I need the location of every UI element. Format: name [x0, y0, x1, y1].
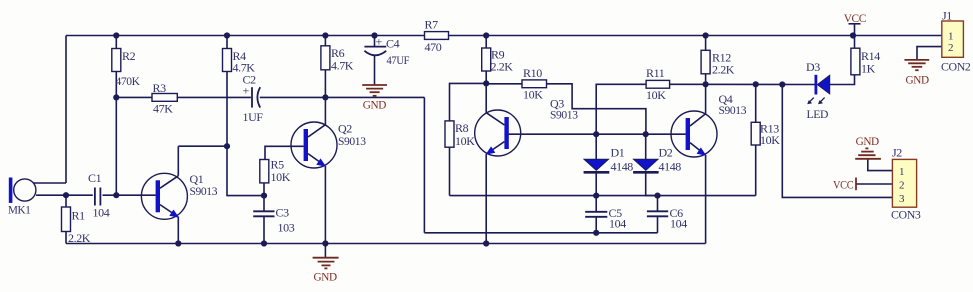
svg-text:J2: J2 [892, 146, 902, 160]
capacitor C6 [647, 211, 668, 216]
wire mic output row [36, 194, 93, 196]
svg-text:VCC: VCC [833, 178, 854, 192]
wire C4 top stub [374, 36, 376, 47]
capacitor C1 [95, 188, 101, 206]
svg-text:470: 470 [425, 40, 442, 54]
wire J2 pin2 to VCC bar [856, 183, 892, 185]
resistor R10 [522, 80, 547, 88]
wire jog R4 node down to R5/C3 node [227, 146, 264, 195]
wire J2 pin1 to ground [868, 159, 893, 171]
wire base row Q3 to Q4 [508, 133, 685, 135]
svg-text:10K: 10K [523, 88, 543, 102]
wire Q2 emitter stub [324, 166, 326, 244]
svg-text:C4: C4 [386, 37, 400, 51]
svg-text:GND: GND [314, 270, 338, 284]
resistor R14 [851, 48, 860, 75]
svg-text:3: 3 [899, 193, 905, 205]
transistor Q3 S9013 (mirrored) [475, 110, 521, 156]
ground symbol under C4 [362, 85, 387, 96]
wire Q1 collector stub [177, 146, 179, 176]
wire corner column down [423, 97, 425, 232]
svg-text:2.2K: 2.2K [491, 60, 514, 74]
svg-text:2.2K: 2.2K [68, 231, 91, 245]
diode D2 4148 [633, 159, 659, 172]
resistor R8 [445, 121, 454, 147]
wire bottom ground rail [66, 243, 706, 245]
capacitor C2 [252, 87, 260, 107]
svg-text:10K: 10K [646, 88, 666, 102]
svg-text:MK1: MK1 [8, 203, 31, 217]
wire R2 column [115, 36, 117, 49]
svg-text:2.2K: 2.2K [712, 63, 735, 77]
wire D2 cathode jog [646, 172, 658, 195]
resistor R1 [62, 207, 71, 232]
ground symbol at J1 [904, 60, 929, 70]
ground symbol at J2 (inverted) [855, 148, 881, 158]
svg-text:R11: R11 [646, 66, 665, 80]
svg-text:D1: D1 [611, 146, 625, 160]
svg-text:CON3: CON3 [891, 208, 921, 222]
wire D2 anode stub [645, 134, 647, 159]
diode D1 4148 [584, 159, 610, 172]
svg-text:47UF: 47UF [387, 53, 410, 67]
svg-text:1UF: 1UF [243, 110, 264, 124]
resistor R4 [223, 49, 232, 72]
svg-text:1: 1 [899, 166, 905, 178]
wire mic top lead [33, 182, 66, 184]
resistor R9 [482, 48, 491, 71]
svg-text:S9013: S9013 [550, 108, 578, 122]
transistor Q1 S9013 [141, 173, 187, 219]
wire R6 column [324, 36, 326, 46]
wire R9 column [485, 36, 487, 49]
capacitor C3 [253, 211, 274, 216]
svg-text:S9013: S9013 [190, 184, 218, 198]
svg-text:R2: R2 [122, 49, 136, 63]
wire C2 output to corner column [260, 96, 425, 98]
wire R13 leads [755, 84, 757, 122]
svg-text:4148: 4148 [611, 160, 634, 174]
svg-text:R3: R3 [153, 81, 167, 95]
wire J2 pin3 riser [782, 85, 892, 198]
wire C3 stubs [263, 196, 265, 212]
svg-text:103: 103 [278, 221, 295, 235]
transistor Q2 S9013 [291, 122, 337, 168]
svg-text:4148: 4148 [659, 160, 682, 174]
connector J1 CON2 [942, 21, 964, 57]
svg-text:10K: 10K [271, 170, 291, 184]
svg-text:104: 104 [609, 217, 626, 231]
svg-text:R10: R10 [523, 66, 542, 80]
wire R5 bottom lead [263, 183, 265, 196]
svg-text:C1: C1 [88, 171, 102, 185]
wire Q1 emitter stub [177, 217, 179, 244]
svg-text:R7: R7 [425, 18, 439, 32]
svg-text:4.7K: 4.7K [331, 59, 354, 73]
VCC bar at J2 pin2 [855, 178, 857, 191]
ground symbol under Q2 [313, 258, 339, 269]
svg-text:470K: 470K [116, 74, 141, 88]
svg-text:GND: GND [906, 73, 930, 87]
svg-text:S9013: S9013 [338, 134, 366, 148]
wire C1 to Q1 base [103, 194, 156, 196]
svg-text:S9013: S9013 [719, 103, 747, 117]
svg-text:R1: R1 [72, 209, 86, 223]
svg-text:104: 104 [670, 217, 687, 231]
svg-text:1: 1 [948, 31, 954, 43]
capacitor C4 [364, 47, 386, 56]
resistor R6 [321, 46, 330, 70]
resistor R12 [701, 50, 710, 74]
resistor R3 [152, 94, 177, 102]
wire C6 stubs [657, 196, 659, 212]
svg-text:+: + [243, 84, 250, 98]
svg-text:1K: 1K [861, 62, 876, 76]
svg-text:104: 104 [93, 206, 110, 220]
wire Q3 collector stub [485, 83, 487, 112]
wire R8 bottom lead [449, 147, 451, 195]
microphone MK1 [9, 178, 36, 203]
wire Q4 emitter stub [705, 155, 707, 244]
svg-text:GND: GND [363, 98, 387, 112]
connector J2 CON3 [892, 159, 916, 207]
wire R12 column [705, 36, 707, 51]
svg-text:10K: 10K [760, 133, 780, 147]
wire R1 bottom lead [65, 232, 67, 244]
wire Q4 collector stub [705, 84, 707, 113]
wire top VCC rail left segment [66, 35, 425, 37]
wire C5 C6 bottom bus [424, 232, 657, 234]
transistor Q4 S9013 [671, 111, 717, 157]
wire D1 anode stub [595, 134, 597, 159]
resistor R11 [646, 80, 670, 88]
wire left vertical from rail to mic [65, 36, 67, 184]
svg-text:D3: D3 [806, 60, 820, 74]
wire R1 top lead [65, 195, 67, 207]
wire R5 top corner to Q2 base [265, 146, 304, 159]
wire top VCC rail right segment [449, 35, 942, 37]
svg-text:+: + [376, 35, 383, 49]
wire R11 right lead row to LED [670, 83, 815, 85]
svg-text:GND: GND [856, 134, 880, 148]
wire R4 column [226, 36, 228, 49]
wire LED anode side to R14 [830, 75, 855, 85]
wire C5 stubs [595, 196, 597, 212]
wire Q2 collector stub [324, 97, 326, 124]
wire R14 top lead [854, 36, 856, 49]
svg-text:D2: D2 [659, 146, 673, 160]
svg-text:47K: 47K [153, 102, 173, 116]
wire R8 top lead [450, 83, 487, 121]
wire J1 pin2 to ground [917, 47, 942, 60]
wire R11 left lead and riser to D1 [596, 84, 646, 134]
wire ground stem under Q2 [324, 244, 326, 258]
wire VCC tick [854, 24, 856, 36]
svg-text:2: 2 [948, 42, 954, 54]
svg-text:10K: 10K [455, 134, 475, 148]
svg-text:CON2: CON2 [941, 60, 971, 74]
svg-text:2: 2 [899, 180, 905, 192]
wire R10 leads and staircase [486, 83, 522, 85]
resistor R7 [425, 32, 449, 40]
wire D1 cathode stub [595, 172, 597, 195]
LED D3 [807, 75, 830, 105]
svg-text:J1: J1 [942, 9, 952, 23]
svg-text:VCC: VCC [844, 11, 867, 25]
svg-text:C3: C3 [276, 206, 290, 220]
wire C4 stem to ground [374, 56, 376, 85]
svg-text:R8: R8 [455, 121, 469, 135]
resistor R13 [751, 122, 760, 145]
svg-text:LED: LED [807, 107, 829, 121]
wire Q3 emitter stub [485, 154, 487, 244]
resistor R2 [112, 49, 121, 72]
wire R3 leads [116, 96, 152, 98]
resistor R5 [260, 160, 269, 183]
capacitor C5 [585, 212, 607, 217]
wire Q1 collector to R4 node [178, 145, 227, 147]
wire emitter bus row [450, 195, 756, 197]
